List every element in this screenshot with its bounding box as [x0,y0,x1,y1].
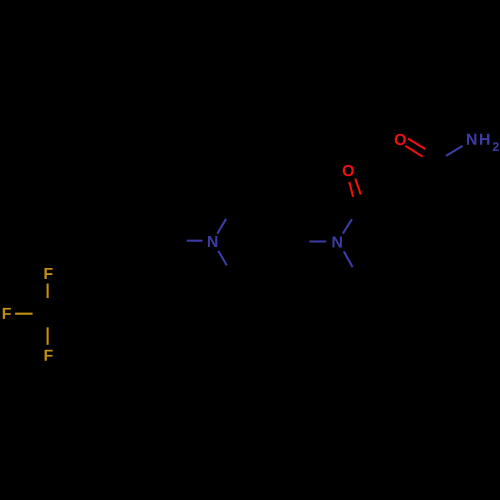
wire C-F3 half-bond [47,327,49,345]
oxygen O1 label (lactam carbonyl) [343,165,354,176]
nitrogen N2 label (lactam) [332,236,341,247]
wire C-F2 half-bond [15,313,32,315]
wire C-NH2 half-bond [446,146,463,156]
wire C-F1 half-bond [47,284,49,299]
wire N2 upper-right half-bond [343,219,352,233]
fluorine F3 label (bottom of CF3) [45,350,53,361]
amide nitrogen N label of NH2 [467,134,476,145]
nitrogen N1 label (piperidine) [208,236,217,247]
wire N1 upper-right half-bond [217,219,226,234]
wire O2=C double-bond half upper line [408,139,426,150]
wire N1 lower-right half-bond [218,251,227,265]
wire N1 left half-bond [187,240,203,242]
wire N2 lower-right half-bond [344,251,353,267]
wire O1=C double-bond half line right [355,179,361,195]
amide H label of NH2 [480,134,489,145]
fluorine F1 label (top of CF3) [44,268,52,279]
oxygen O2 label (amide carbonyl) [395,134,406,145]
amide subscript 2 label of NH2 [493,142,499,151]
wire O1=C double-bond half line left [349,182,353,197]
wire N2 left half-bond [309,240,326,242]
wire O2=C double-bond half lower line [405,146,422,157]
fluorine F2 label (left of CF3) [3,308,11,319]
